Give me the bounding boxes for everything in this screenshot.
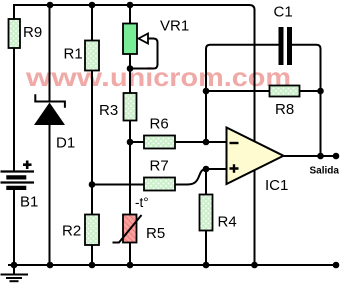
wire R5 to ground rail — [129, 243, 131, 266]
junction ground rail at R5 — [127, 262, 134, 269]
junction feedback right node — [317, 88, 324, 95]
wire C1 right to output node — [292, 45, 321, 156]
wire bottom ground rail — [8, 264, 336, 266]
junction R7 left at R2 branch — [89, 181, 96, 188]
svg-text:D1: D1 — [56, 135, 75, 152]
svg-text:IC1: IC1 — [265, 177, 288, 194]
wire R1 branch upper — [91, 5, 93, 41]
battery B1 — [1, 161, 39, 211]
svg-text:R4: R4 — [218, 214, 237, 231]
junction top rail at VR1 — [127, 2, 134, 9]
junction ground rail at V- pin — [251, 262, 258, 269]
wire inverting node up to C1 — [206, 45, 279, 142]
wire R8 right — [300, 90, 321, 92]
junction ground rail at R2 — [89, 262, 96, 269]
svg-text:Salida: Salida — [310, 166, 340, 177]
junction output feedback node — [317, 153, 324, 160]
resistor R7 — [144, 158, 175, 191]
svg-text:R1: R1 — [64, 46, 83, 63]
svg-text:unicrom.com: unicrom.com — [110, 62, 291, 92]
wire VR1 bottom to node — [129, 54, 131, 93]
junction output terminal Salida — [333, 153, 340, 160]
wire R9 to battery B1 — [13, 48, 15, 171]
potentiometer VR1 — [123, 18, 189, 55]
junction ground rail right end — [333, 262, 340, 269]
junction R6 left node — [127, 139, 134, 146]
wire top supply rail — [14, 5, 255, 10]
junction feedback left node — [203, 88, 210, 95]
resistor R1 — [64, 41, 100, 71]
resistor R4 — [200, 195, 237, 231]
wire VR1 wiper loop — [130, 39, 158, 69]
wire R4 to ground rail — [205, 231, 207, 266]
junction top rail at D1 — [47, 2, 54, 9]
resistor R2 — [62, 215, 99, 246]
svg-text:R5: R5 — [146, 225, 165, 242]
junction inverting input node — [203, 139, 210, 146]
wire R8 left — [206, 90, 270, 92]
svg-text:-t°: -t° — [135, 195, 149, 210]
resistor R9 — [9, 19, 43, 48]
resistor R8 — [270, 86, 300, 119]
svg-text:R9: R9 — [23, 24, 42, 41]
wire R6 left — [130, 141, 144, 143]
svg-text:R8: R8 — [275, 101, 294, 118]
junction non-inverting input node — [203, 166, 210, 173]
op-amp IC1 — [227, 128, 289, 195]
capacitor C1 — [274, 4, 293, 66]
wire op-amp V- pin to ground rail — [254, 162, 256, 265]
resistor R6 — [144, 116, 175, 149]
thermistor R5 — [113, 195, 166, 243]
ground symbol — [1, 265, 29, 281]
svg-text:R7: R7 — [150, 158, 169, 175]
wire op-amp V+ pin from top rail — [254, 9, 256, 150]
wire R7 right curved to non-inverting node — [175, 169, 206, 185]
wire R2 to ground rail — [91, 245, 93, 265]
svg-text:C1: C1 — [274, 4, 293, 21]
svg-text:R2: R2 — [62, 223, 81, 240]
wire non-inverting input — [206, 168, 227, 170]
wire battery B1 to ground rail — [13, 189, 15, 265]
svg-text:R3: R3 — [99, 102, 118, 119]
resistor R3 — [99, 93, 137, 121]
wire R1 to R2 — [91, 71, 93, 215]
wire R7 left — [92, 184, 144, 186]
svg-text:R6: R6 — [150, 116, 169, 133]
wire VR1 branch upper — [129, 5, 131, 24]
zener diode D1 — [34, 94, 75, 151]
wire left rail upper (top rail to R9) — [13, 4, 15, 19]
junction ground rail at R4 — [203, 262, 210, 269]
junction top rail at R1 — [89, 2, 96, 9]
svg-text:VR1: VR1 — [160, 18, 189, 35]
junction VR1 wiper to bottom terminal — [127, 65, 134, 72]
svg-text:B1: B1 — [20, 194, 38, 211]
wire R6 to op-amp inverting input — [175, 141, 227, 143]
wire D1 branch lower — [49, 125, 51, 265]
wire op-amp output to Salida — [284, 155, 339, 157]
junction ground rail at D1 — [47, 262, 54, 269]
junction ground rail at B1 — [11, 262, 18, 269]
wire R3 to R5 — [129, 121, 131, 215]
wire non-inverting node to R4 — [205, 169, 207, 195]
wire D1 branch upper — [49, 5, 51, 102]
